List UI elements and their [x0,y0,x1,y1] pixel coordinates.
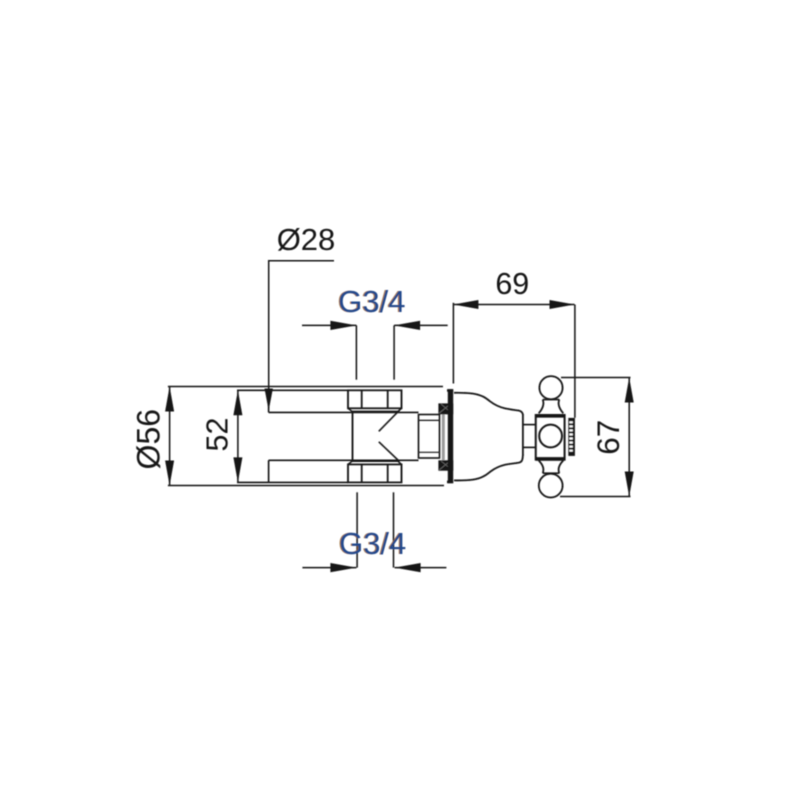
top pipe top edge with 52 tick [237,389,348,391]
dim arrow 52 bottom [233,457,242,482]
stem bottom line [523,446,536,448]
dim line G3/4 bottom right [395,567,447,569]
top pipe left end [268,390,270,412]
bracket hatched block top [438,403,453,414]
dim arrow Ø56 top [165,387,174,412]
dim line 67 [628,378,630,497]
top nut facet line right [387,390,389,408]
ext line Ø56 top [168,386,443,388]
top pipe bottom edge / body top [269,411,419,413]
cartridge body [419,415,440,459]
bottom nut [348,464,402,482]
svg-text:52: 52 [201,418,235,452]
bottom pipe left end [268,460,270,482]
dim line 69 [453,304,574,306]
handle hub top band [536,414,565,418]
top ball collar [543,399,560,401]
top nut facet line left [361,390,363,408]
dim arrow 69 right [550,300,575,309]
bracket hatched block bottom [438,460,453,470]
dim line 52 [237,390,239,482]
ext line 67 top [561,377,631,379]
handle hub bottom band [536,457,565,461]
bottom neck left [539,461,544,474]
cartridge inner line bottom [419,451,440,453]
bottom G3/4 ext line left [356,492,358,567]
bottom nut washer [348,461,402,464]
dim arrow 67 bottom [625,472,634,497]
top nut washer [348,408,402,411]
leader arrow Ø28 [265,389,273,411]
wall flange cap top [447,389,453,392]
bottom nut facet line right [387,464,389,482]
stem top line [523,424,536,426]
svg-text:69: 69 [495,267,529,301]
knurl slots [569,421,572,451]
dim arrow 52 top [233,390,242,415]
ext line G3/4 top right [393,325,395,379]
dim arrow 67 top [625,378,634,403]
dim arrow G3/4 bottom right [395,563,421,572]
dim arrow G3/4 bottom left [330,563,356,572]
hub circle [539,425,562,448]
valve chevron upper arm [379,410,400,432]
dim line Ø56 [169,387,171,486]
bottom nut facet line left [361,464,363,482]
dim arrow G3/4 top left [330,321,356,330]
valve chevron lower arm [379,442,400,462]
knurl block [568,418,575,456]
svg-text:Ø28: Ø28 [277,222,336,257]
dim line G3/4 top left [302,324,356,326]
cartridge inner line top [419,419,440,421]
bottom pipe bottom edge with 52 tick [237,481,348,483]
escutcheon cone bottom edge [454,455,523,481]
ext line G3/4 top left [355,325,357,379]
dim arrow Ø56 bottom [165,461,174,486]
valve body left edge [352,411,354,461]
svg-text:G3/4: G3/4 [339,526,406,561]
top nut [348,390,402,408]
top ball [539,376,562,399]
wall flange cap bottom [447,481,453,484]
dim line G3/4 top right [394,324,448,326]
bottom ball collar [543,472,560,474]
svg-text:67: 67 [590,420,626,455]
bottom pipe top edge / body bottom [269,459,419,461]
wall flange bar [448,389,453,483]
ext line 69 left [452,303,454,384]
top neck left [539,400,544,414]
ext line 69 right [574,305,576,418]
bottom ball [539,474,563,498]
escutcheon cone right face [522,414,524,456]
svg-text:G3/4: G3/4 [338,284,405,319]
svg-text:Ø56: Ø56 [131,409,167,469]
dim line G3/4 bottom left [302,567,356,569]
dim arrow G3/4 top right [394,321,420,330]
cartridge grey stem [442,414,445,461]
bottom G3/4 ext line right [393,492,395,567]
dim arrow 69 left [453,300,478,309]
ext line 67 bottom [560,496,631,498]
handle hub [536,415,565,460]
bottom neck right [559,461,564,474]
leader line Ø28 [269,261,334,390]
escutcheon cone top edge [454,393,523,415]
top neck right [559,400,564,414]
ext line Ø56 bottom [168,485,444,487]
